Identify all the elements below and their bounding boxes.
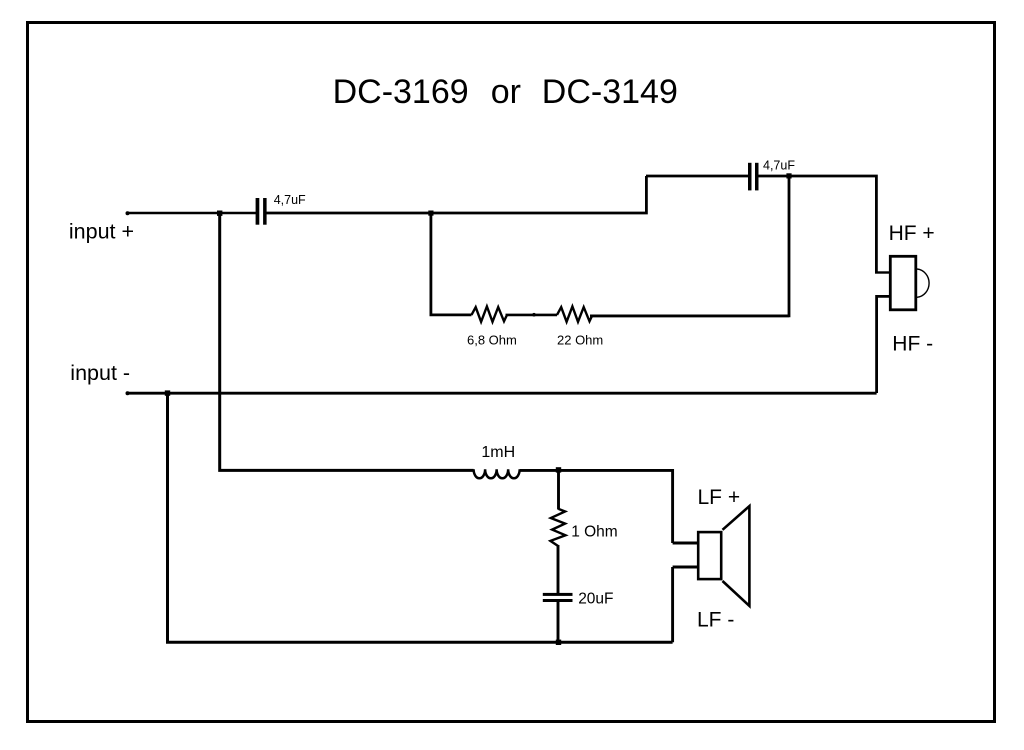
wire HF+ stub <box>875 271 890 273</box>
junction A (input+ split) <box>217 211 222 216</box>
junction E (zobel tap) <box>556 467 561 472</box>
svg-text:DC-3169: DC-3169 <box>333 73 469 111</box>
junction B (after C2) <box>786 173 791 178</box>
wire junction D down and bottom rail <box>168 393 673 642</box>
title <box>333 73 678 111</box>
junction C (R branch tap) <box>428 211 433 216</box>
wire junction A down to LF line <box>220 213 474 470</box>
svg-text:DC-3149: DC-3149 <box>542 73 678 111</box>
junction D (input- split) <box>165 390 170 395</box>
capacitor C1 <box>256 198 267 225</box>
wire between R1 and R2 <box>506 314 558 317</box>
svg-text:LF +: LF + <box>698 486 741 509</box>
svg-text:input -: input - <box>70 361 130 385</box>
speaker LF (woofer) <box>698 506 749 606</box>
resistor R1 <box>472 306 507 321</box>
node input + <box>69 211 134 243</box>
junction F (bottom rail tap) <box>556 640 561 645</box>
wire C2 to HF corner <box>759 176 877 273</box>
wire LF+ stub <box>673 542 698 545</box>
resistor R2 <box>557 306 592 321</box>
wire junction E down to R3 <box>557 469 560 510</box>
wire C3 to bottom rail <box>557 602 560 642</box>
wire bottom rail up to LF- stub <box>671 567 674 642</box>
wire R2 to junction B leg <box>591 314 789 317</box>
node dot between R1 and R2 <box>532 313 536 317</box>
svg-text:input +: input + <box>69 220 134 244</box>
resistor R3 <box>550 509 565 546</box>
wire top after C1 to jog <box>267 176 647 213</box>
speaker HF (tweeter) <box>890 256 929 310</box>
wire L1 to LF corner <box>520 470 673 543</box>
capacitor C3 <box>543 593 573 602</box>
svg-text:20uF: 20uF <box>578 591 613 608</box>
svg-text:22 Ohm: 22 Ohm <box>557 333 603 348</box>
svg-text:1mH: 1mH <box>481 444 515 461</box>
wire input- rail <box>127 392 877 395</box>
svg-text:LF -: LF - <box>697 609 734 632</box>
svg-text:HF +: HF + <box>889 222 935 245</box>
capacitor C2 <box>748 163 759 191</box>
wire R3 to C3 <box>557 545 560 593</box>
node input - <box>70 361 130 395</box>
svg-text:4,7uF: 4,7uF <box>763 159 795 173</box>
wire HF- stub and drop <box>877 296 890 393</box>
svg-text:1 Ohm: 1 Ohm <box>571 524 618 541</box>
wire top level to C2 <box>646 175 748 178</box>
wire junction B down to resistor line <box>590 176 789 316</box>
wire input+ lead <box>127 212 256 215</box>
svg-text:HF -: HF - <box>892 333 933 356</box>
wire junction C down to resistors <box>431 213 472 315</box>
inductor L1 <box>474 469 520 478</box>
svg-text:4,7uF: 4,7uF <box>274 193 306 207</box>
svg-text:or: or <box>491 73 521 111</box>
svg-text:6,8 Ohm: 6,8 Ohm <box>467 333 517 348</box>
wire LF- stub <box>673 566 698 569</box>
